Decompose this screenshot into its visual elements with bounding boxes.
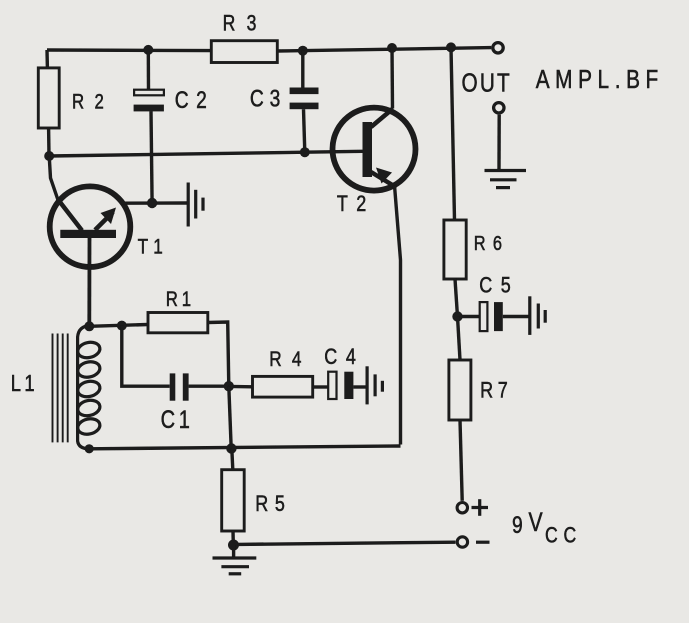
wire C2 bottom [151,111,152,203]
wire T1 collector to ground [121,201,188,205]
node junction top C2 [143,45,153,55]
svg-text:OUT: OUT [462,68,512,97]
terminal battery plus [457,503,467,513]
node junction top C3 [298,46,308,56]
resistor R1 [148,288,208,332]
ground symbol C4 [367,366,382,404]
wire R5 bottom [231,531,235,544]
node junction C1 R4 [224,381,234,391]
node junction bottom left [85,444,94,453]
svg-text:AMPL.BF: AMPL.BF [536,65,664,94]
wire C1 right [189,385,229,388]
capacitor C1 [161,373,194,433]
resistor R2 [38,68,114,128]
label 9VCC [512,508,582,548]
terminal OUT [493,43,503,53]
svg-text:R3: R3 [223,12,268,36]
node junction top T2 collector [387,43,397,53]
node junction top R6 [446,42,456,52]
svg-text:L1: L1 [11,371,38,396]
svg-text:C3: C3 [250,84,286,112]
wire bottom rail [89,446,400,449]
wire R5 ground stub [232,545,235,557]
svg-text:R7: R7 [480,379,512,403]
terminal battery minus [457,537,467,547]
node junction C5 [452,311,462,321]
wire R1 C1 junction down [229,386,231,448]
wire R7 top [458,317,461,361]
node junction R5 ground [228,540,239,551]
wire R4 left [229,385,253,389]
wire R2 top [45,50,49,68]
svg-text:9: 9 [512,511,523,539]
wire T2 emitter down [395,186,401,445]
node junction C2 bottom [147,198,157,208]
wire C1 left [122,326,170,387]
wire C5 left [458,315,480,318]
capacitor C3 [250,84,319,112]
wire C5 right [503,315,530,318]
transistor T1 [50,186,168,267]
svg-text:R1: R1 [166,288,195,311]
wire C3 bottom [304,109,305,152]
svg-text:R4: R4 [269,347,311,371]
transistor T2 [333,108,416,217]
svg-text:CC: CC [545,524,582,548]
node junction R1 left [117,321,127,331]
capacitor C4 [324,345,364,399]
capacitor C2 [134,86,215,114]
resistor R5 [222,470,292,531]
svg-text:C2: C2 [175,86,215,114]
wire T1 emitter down [87,238,91,326]
resistor R3 [211,12,277,63]
label minus [476,541,490,544]
wire top rail left segment [47,48,211,52]
wire R7 bottom [460,420,462,501]
node junction bottom R5 [226,443,236,453]
wire C3 top [301,51,304,88]
resistor R4 [253,347,313,397]
svg-text:C4: C4 [324,345,364,369]
resistor R7 [449,360,513,420]
svg-text:T1: T1 [138,235,168,259]
terminal ground out [494,103,504,113]
svg-text:V: V [529,508,543,538]
wire mid rail [49,151,363,156]
capacitor C5 [479,274,519,331]
node junction L1 top [84,321,94,331]
wire T1 left [49,156,58,200]
wire L1 top to R1 [89,325,148,327]
svg-text:R2: R2 [72,91,114,114]
label plus [472,499,489,516]
svg-text:T2: T2 [337,192,375,216]
svg-text:R6: R6 [474,231,510,254]
wire R5 top [232,449,233,470]
ground symbol R5 [213,558,257,574]
ground symbol T1 [188,183,203,227]
svg-text:R5: R5 [255,492,291,516]
svg-text:C1: C1 [161,406,194,434]
wire C4 right [353,385,367,388]
resistor R6 [444,220,509,279]
wire T2 collector up [390,48,394,109]
ground symbol C5 [530,296,545,335]
wire R6 top [451,47,455,220]
wire battery minus [237,542,456,544]
inductor core lines [53,334,68,443]
wire R1 right [208,322,229,386]
wire R4 right [313,385,328,388]
node junction mid rail left [44,151,54,161]
wire R2 bottom [47,128,51,156]
wire top rail right segment [277,48,491,51]
svg-text:C5: C5 [479,274,519,298]
wire C2 top [147,50,151,90]
ground symbol out [485,171,527,188]
wire R6 bottom [455,279,458,317]
wire out ground [497,115,501,170]
node junction mid rail C3 [300,147,310,157]
inductor L1 [11,326,102,450]
